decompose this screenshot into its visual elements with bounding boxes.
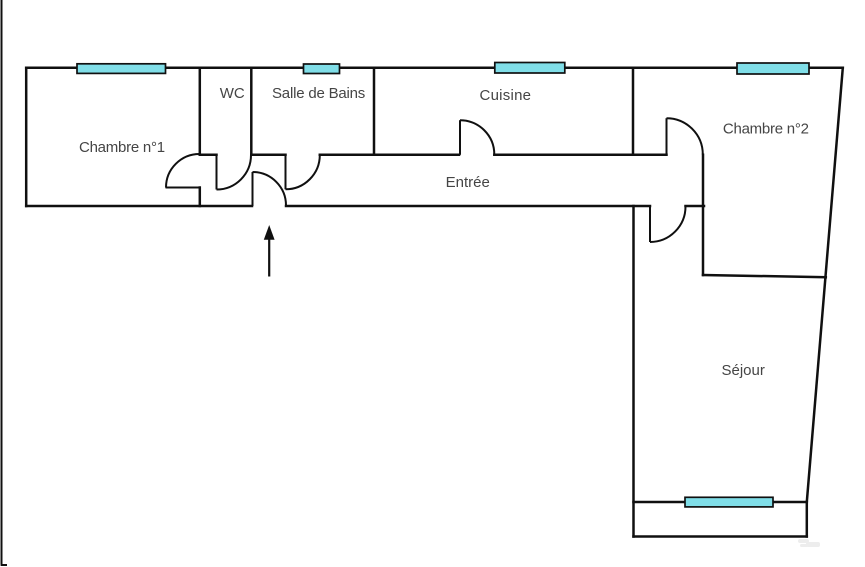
wall balcony right xyxy=(806,502,809,537)
svg-text:WC: WC xyxy=(220,85,245,102)
entrance arrow shaft xyxy=(268,239,270,277)
wall corridor top segment 4 xyxy=(494,154,666,157)
wall right slanted (exterior) xyxy=(807,68,843,502)
svg-text:Salle de Bains: Salle de Bains xyxy=(272,85,365,102)
wall Chambre n°2 left xyxy=(702,155,705,275)
door leaf Séjour xyxy=(649,207,651,243)
door leaf WC xyxy=(216,155,218,190)
window Cuisine xyxy=(495,63,565,74)
wall WC right / Salle de Bains left xyxy=(250,68,253,155)
door leaf Salle de Bains xyxy=(285,155,287,190)
wall bottom (corridor, entrance door to Séjour door) xyxy=(286,205,650,208)
door arc WC xyxy=(217,155,252,190)
svg-text:Cuisine: Cuisine xyxy=(480,87,532,104)
door arc Cuisine xyxy=(460,120,494,154)
faint watermark bottom right xyxy=(798,539,820,547)
wall balcony bottom xyxy=(634,535,807,538)
door leaf Chambre n°1 xyxy=(166,187,200,189)
window Séjour xyxy=(685,497,773,507)
door arc Chambre n°2 xyxy=(667,118,703,154)
wall WC left xyxy=(199,68,202,155)
svg-text:Chambre n°1: Chambre n°1 xyxy=(79,139,165,156)
svg-text:Séjour: Séjour xyxy=(722,362,765,379)
window Salle de Bains xyxy=(304,64,340,74)
wall Séjour left xyxy=(632,206,635,537)
wall left (exterior, Chambre n°1) xyxy=(25,68,28,206)
svg-text:Chambre n°2: Chambre n°2 xyxy=(723,121,809,138)
window Chambre n°1 xyxy=(77,64,166,74)
wall bottom (Chambre n°1 + corridor, left of entrance door) xyxy=(26,205,252,208)
wall Cuisine right xyxy=(632,68,635,155)
door leaf entrance xyxy=(252,172,254,206)
wall corridor top segment 2 xyxy=(251,154,285,157)
wall Salle de Bains right / Cuisine left xyxy=(373,68,376,155)
door arc Chambre n°1 xyxy=(166,154,200,188)
wall corridor top segment 1 xyxy=(200,154,217,157)
page left border xyxy=(1,0,3,565)
entrance arrow head xyxy=(264,225,275,240)
wall Séjour bottom / balcony top xyxy=(634,501,807,504)
wall corridor top segment 3 xyxy=(320,154,459,157)
door leaf Cuisine xyxy=(459,120,461,155)
door arc entrance xyxy=(253,172,287,206)
page bottom-left border foot xyxy=(1,564,7,566)
door arc Séjour xyxy=(650,207,686,243)
door arc Salle de Bains xyxy=(286,155,320,189)
window Chambre n°2 xyxy=(737,63,809,74)
wall Chambre n°2 bottom xyxy=(703,275,826,277)
svg-text:Entrée: Entrée xyxy=(446,174,490,191)
wall bottom (corridor, right of Séjour door) xyxy=(686,205,705,208)
wall top (exterior) xyxy=(26,67,843,70)
door leaf Chambre n°2 xyxy=(666,118,668,155)
wall jamb below Chambre n°1 door xyxy=(199,188,202,207)
